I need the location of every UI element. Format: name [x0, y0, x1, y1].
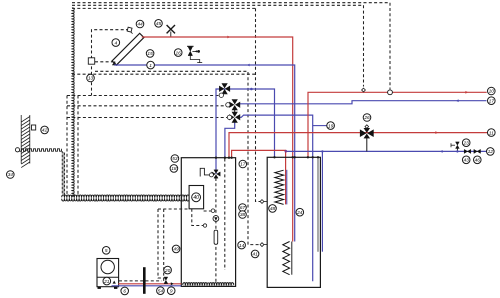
wire dashed controller drop right	[77, 96, 79, 196]
svg-text:19: 19	[328, 123, 334, 129]
node label 10	[488, 87, 496, 95]
node label 9	[167, 287, 175, 295]
pump P1	[213, 216, 219, 222]
node label 16	[174, 49, 182, 57]
node label 18	[170, 165, 178, 173]
wire dashed square to collector foot	[95, 61, 113, 63]
wire outdoor sensor lead vertical	[62, 151, 64, 195]
svg-text:24: 24	[296, 210, 303, 216]
mixing valve M1 stem	[366, 138, 368, 151]
solar collector panel	[112, 33, 144, 65]
junction pump inlet	[211, 209, 215, 213]
svg-text:43: 43	[464, 158, 470, 164]
wire dashed roof boundary outer	[72, 2, 390, 4]
node label 41	[251, 250, 259, 258]
valve T1 (3-way)	[212, 170, 220, 178]
coil T2 lower	[283, 242, 290, 275]
node label 45	[155, 20, 163, 28]
svg-text:13: 13	[88, 76, 94, 82]
wire dashed boiler control	[119, 280, 162, 282]
boiler B1 label	[192, 193, 201, 202]
svg-text:15: 15	[147, 51, 153, 57]
node label 54	[157, 287, 165, 295]
arrow DHW flow	[465, 91, 468, 94]
svg-text:6: 6	[123, 289, 126, 295]
junction T2 top dots	[273, 156, 275, 158]
node label 23	[462, 139, 470, 147]
node label 17	[239, 160, 247, 168]
svg-text:20: 20	[164, 268, 171, 274]
wire dashed tank1 box-pump	[204, 210, 212, 212]
svg-text:40: 40	[193, 195, 199, 201]
arrow solar return	[247, 64, 250, 67]
pipe DHW flow (red)	[308, 92, 487, 157]
safety valve group	[188, 47, 192, 56]
svg-text:16: 16	[176, 50, 182, 56]
wire dashed controller line 1	[67, 95, 219, 97]
svg-text:11: 11	[489, 130, 494, 136]
svg-text:5: 5	[105, 248, 108, 254]
node label 13	[87, 74, 95, 82]
wire dashed controller drop left	[66, 96, 68, 196]
arrow heating return top	[456, 99, 459, 102]
node label 20	[164, 266, 172, 274]
node label 5	[102, 247, 110, 255]
valve U1 (3-way)	[219, 84, 229, 94]
svg-text:45: 45	[156, 21, 162, 27]
sensor outdoor temperature box	[32, 125, 36, 130]
wire dashed tank1 mid lead	[192, 209, 203, 226]
diamond on DHW flow	[362, 88, 366, 92]
svg-text:10: 10	[489, 89, 495, 95]
wire dashed roof boundary middle	[72, 4, 364, 6]
node label 14	[238, 241, 246, 249]
wire dashed collector loop lead B	[72, 73, 256, 75]
pipe heating return (blue)	[286, 150, 487, 152]
wire dashed drop to red line diamond	[363, 5, 365, 86]
boiler B2 body	[97, 259, 119, 287]
air vent X symbol	[167, 25, 175, 33]
pipe valve2 blue to right	[239, 101, 487, 104]
svg-text:42: 42	[42, 128, 48, 134]
node label 17	[488, 97, 496, 105]
node label 1	[147, 61, 155, 69]
svg-text:4: 4	[114, 40, 117, 46]
valve U3 (3-way)	[230, 112, 240, 122]
pipe valve1 blue	[216, 89, 275, 174]
arrow heating return	[440, 150, 443, 153]
wire dashed tank1 inner vertical	[224, 159, 226, 271]
wire outdoor sensor lead horizontal	[20, 149, 62, 151]
node label 67	[239, 204, 247, 212]
pipe solar return (blue)	[114, 65, 294, 242]
node sensor diamond lower	[260, 243, 264, 247]
pipe tank1-tank2 red	[232, 150, 286, 204]
node label 21	[103, 277, 111, 285]
wire dashed roof boundary inner	[72, 7, 256, 9]
sensor wall bulb	[15, 148, 19, 152]
svg-text:17: 17	[489, 98, 495, 104]
svg-text:34: 34	[8, 172, 14, 178]
node label 12	[487, 148, 495, 156]
junction heating return	[285, 150, 288, 153]
pipe valve3 bottom to tank1	[225, 123, 235, 158]
node label 38	[239, 211, 247, 219]
node label 26	[363, 114, 371, 122]
sensor on DHW flow	[389, 88, 391, 90]
pipe valve3 blue to tank2	[239, 115, 313, 281]
svg-text:41: 41	[252, 252, 258, 258]
shutoff valve V1	[464, 149, 471, 153]
pipe valve3 label stub	[313, 125, 327, 127]
valve U2 (3-way)	[230, 100, 240, 110]
node label 49	[172, 245, 180, 253]
svg-text:49: 49	[173, 247, 179, 253]
junction collector sensor box	[88, 58, 94, 64]
junction tank1 top dots	[215, 157, 217, 159]
node label 48	[269, 205, 277, 213]
node label 42	[41, 126, 49, 134]
node label 53	[171, 155, 179, 163]
junction tank1 mid lead bulb	[203, 224, 206, 227]
svg-text:21: 21	[103, 279, 110, 285]
mixing valve M1	[360, 128, 373, 138]
arrow solar flow	[227, 36, 230, 39]
wire dashed boiler drop 2	[163, 209, 165, 281]
sensor collector (small square)	[131, 31, 133, 34]
pipe boiler flow (red)	[118, 283, 181, 285]
svg-text:53: 53	[172, 156, 178, 162]
svg-text:26: 26	[363, 115, 370, 121]
wall outdoor (hatched)	[20, 115, 22, 164]
wall penetration bar	[143, 267, 146, 294]
tank T1 bottom insulation	[183, 283, 234, 285]
wire dashed drop to flow sensor	[389, 3, 391, 89]
node label 24	[296, 208, 304, 216]
heater element E1	[214, 230, 218, 244]
node label 15	[146, 50, 154, 58]
svg-text:48: 48	[270, 206, 276, 212]
node label 44	[136, 20, 144, 28]
node label 46	[474, 156, 482, 164]
tank T1 body	[181, 158, 235, 287]
node label 11	[488, 129, 496, 137]
wire dashed collector sensor lead	[92, 30, 130, 96]
svg-text:46: 46	[475, 158, 481, 164]
wire dashed tank1 pump line	[215, 178, 217, 283]
svg-text:54: 54	[158, 288, 164, 294]
wire dashed boiler drop 1	[158, 209, 164, 278]
drain valve KFE	[456, 148, 458, 152]
arrow into tank1	[171, 282, 174, 285]
shutoff valve V2	[474, 149, 481, 153]
coil T2 upper	[275, 170, 284, 204]
arrow boiler flow	[113, 281, 116, 284]
wire dashed drop to storage sensor B	[256, 8, 261, 201]
pipe heating return drop	[321, 151, 323, 251]
svg-text:1: 1	[149, 63, 152, 69]
svg-text:38: 38	[240, 212, 246, 218]
pipe heating flow (red)	[229, 133, 488, 158]
wire building floor band lower	[62, 199, 189, 201]
pipe solar flow (red)	[142, 37, 293, 242]
wire dashed controller line 2	[67, 105, 225, 107]
node label 6	[121, 287, 129, 295]
wire dashed boiler link top	[158, 208, 189, 210]
valve boiler drain	[164, 277, 168, 284]
pipe T2 sensor well	[317, 157, 319, 251]
node label 4	[112, 39, 120, 47]
svg-text:23: 23	[463, 140, 470, 146]
svg-text:17: 17	[240, 162, 246, 168]
boiler B1 box	[189, 186, 204, 209]
svg-text:9: 9	[170, 288, 173, 294]
node sensor diamond upper	[260, 200, 264, 204]
wire building floor band upper	[62, 195, 189, 197]
svg-text:18: 18	[171, 166, 177, 172]
node label 34	[7, 171, 15, 179]
arrow heating flow	[435, 131, 438, 134]
junction on valve1 line	[250, 88, 253, 91]
wire dashed controller line 3	[67, 117, 227, 119]
pipe boiler return (blue)	[112, 285, 182, 287]
tank T2 body	[267, 157, 320, 287]
svg-text:44: 44	[137, 22, 143, 28]
node label 19	[327, 122, 335, 130]
wire dashed collector loop lead A	[95, 71, 260, 244]
wire building wall left (insulated boundary)	[72, 8, 74, 196]
svg-text:14: 14	[239, 243, 245, 249]
svg-text:12: 12	[488, 149, 494, 155]
node label 43	[462, 156, 470, 164]
